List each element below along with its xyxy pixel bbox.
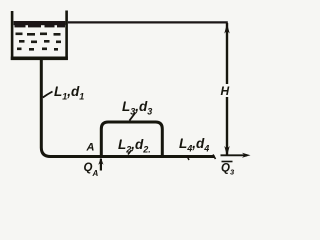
main horizontal pipe: [50, 155, 215, 158]
label QA: [84, 162, 99, 178]
pipe L1 vertical with bottom elbow: [41, 60, 50, 157]
label L4,d4: [179, 136, 209, 154]
tank left wall: [11, 11, 14, 60]
Q3 outflow arrow: [221, 153, 251, 158]
label H: [221, 84, 230, 98]
svg-text:H: H: [221, 84, 230, 98]
water surface band: [14, 21, 66, 27]
water hatch dashes: [16, 33, 62, 51]
H dimension upper arrowhead: [224, 24, 229, 34]
leader tick to L1 label: [43, 92, 53, 98]
bypass loop pipe L3: [101, 122, 162, 157]
QA arrow: [98, 158, 103, 171]
leader tick under L2: [128, 150, 132, 155]
tank right wall: [65, 11, 68, 61]
paper background: [0, 0, 262, 195]
H dimension line upper segment: [226, 23, 228, 84]
label L3,d3: [122, 99, 152, 117]
H dimension line lower segment: [226, 97, 228, 156]
label L2,d2: [118, 137, 151, 155]
svg-text:A: A: [86, 142, 95, 154]
tank bottom: [11, 57, 68, 61]
tick under L4 on pipe: [187, 156, 189, 160]
pipe outlet end tick: [213, 155, 216, 160]
H dimension lower arrowhead: [224, 146, 229, 156]
node A label: [86, 142, 95, 154]
label L1,d1: [54, 84, 84, 102]
surface reference line: [68, 21, 228, 23]
leader tick to L3 label: [130, 113, 136, 121]
label Q3 with overbar: [221, 162, 235, 177]
